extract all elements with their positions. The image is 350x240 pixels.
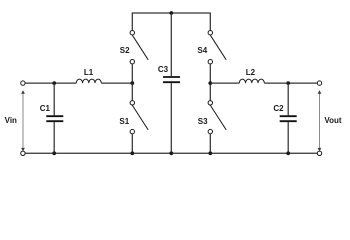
wire S3 upper stub [209,83,211,101]
svg-text:L1: L1 [84,68,94,77]
switch S4 [208,31,226,64]
Vout measurement arrow [318,90,322,151]
svg-text:Vin: Vin [5,116,17,125]
switch S3 [208,101,226,134]
svg-text:S1: S1 [119,117,129,126]
wire S1 upper stub [131,83,133,101]
wire right main [210,82,239,84]
wire bottom rail [25,152,317,154]
inductor L2 [239,79,264,83]
wire S1 lower stub [131,134,133,154]
capacitor C2 [280,83,297,153]
wire S3 lower stub [209,134,211,154]
switch S1 [130,101,148,134]
node C2 bottom [286,151,290,155]
capacitor C3 [163,13,180,153]
inductor L1 [76,79,101,83]
terminal bottom-right [317,151,321,155]
node C1 top [52,81,56,85]
terminal bottom-left [21,151,25,155]
capacitor C1 [46,83,63,153]
node top-center junction [169,11,173,15]
svg-text:Vout: Vout [324,116,342,125]
svg-text:S4: S4 [197,46,207,55]
svg-text:C1: C1 [40,104,51,113]
svg-text:C3: C3 [158,65,169,74]
node right switch junction [208,81,212,85]
terminal top-right [317,81,321,85]
wire S2 upper stub [131,13,133,31]
node left switch junction [130,81,134,85]
Vin measurement arrow [21,90,25,151]
node S1 bottom [130,151,134,155]
switch S2 [130,31,148,64]
svg-text:C2: C2 [273,104,284,113]
svg-text:S2: S2 [120,46,130,55]
node C2 top [286,81,290,85]
wire S2 lower stub [131,64,133,83]
wire right main (after L2) [264,82,317,84]
wire left main (after L1) [101,82,132,84]
wire left main [25,82,76,84]
wire S4 lower stub [209,64,211,83]
svg-text:L2: L2 [246,68,256,77]
node S3 bottom [208,151,212,155]
terminal top-left [21,81,25,85]
svg-text:S3: S3 [198,117,208,126]
node C3 bottom [169,151,173,155]
wire top rail [132,12,210,14]
wire S4 upper stub [209,13,211,31]
node C1 bottom [52,151,56,155]
